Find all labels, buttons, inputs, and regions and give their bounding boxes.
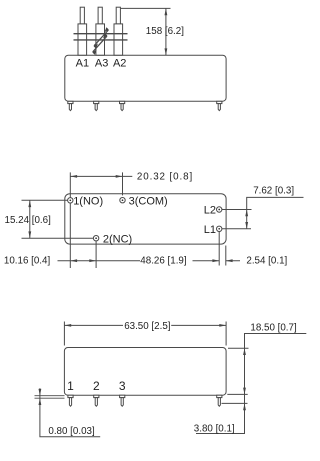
break mark diagonal bbox=[93, 30, 109, 52]
svg-text:20.32 [0.8]: 20.32 [0.8] bbox=[137, 172, 193, 183]
svg-text:L1: L1 bbox=[204, 224, 216, 236]
pin 1 view3 bbox=[68, 395, 73, 406]
body top reference line right bbox=[228, 347, 249, 349]
pin 1(NO) circle bbox=[68, 198, 73, 203]
dim 63.50 arrowheads bbox=[64, 324, 226, 327]
pin 2 view3 bbox=[94, 395, 99, 406]
svg-text:1(NO): 1(NO) bbox=[73, 196, 103, 208]
dim 18.50 shelf and leader bbox=[196, 334, 306, 434]
dim 20.32 dimension line bbox=[70, 175, 132, 177]
coil pin A1 blade bbox=[78, 7, 87, 55]
svg-text:2.54 [0.1]: 2.54 [0.1] bbox=[246, 255, 287, 266]
dim 20.32 extension line pin3 column bbox=[122, 172, 124, 195]
dim 10.16 / 48.26 / 2.54 arrowheads bbox=[70, 259, 232, 262]
bottom pin under view1 right bbox=[217, 101, 222, 110]
pin tip reference line right bbox=[222, 402, 248, 404]
dim 7.62 arrowheads bbox=[245, 210, 248, 229]
extension line pin2 column bottom bbox=[95, 241, 97, 268]
dim 15.24 extension lines bbox=[22, 200, 94, 238]
svg-text:A1: A1 bbox=[76, 58, 89, 70]
svg-text:1: 1 bbox=[67, 379, 74, 393]
svg-text:3(COM): 3(COM) bbox=[129, 196, 168, 208]
pin 3 view3 bbox=[120, 395, 125, 406]
dim 0.80 leader bbox=[40, 388, 100, 437]
pin L2 circle bbox=[217, 207, 222, 212]
svg-text:0.80 [0.03]: 0.80 [0.03] bbox=[48, 426, 95, 437]
dim 7.62 dimension line with shelf bbox=[247, 197, 304, 228]
dim 63.50 dimension line bbox=[64, 324, 226, 326]
coil pin A3 blade bbox=[96, 7, 105, 55]
svg-text:48.26 [1.9]: 48.26 [1.9] bbox=[140, 255, 187, 266]
pin cross bar lines bbox=[74, 34, 128, 40]
extension line body right edge bottom bbox=[225, 246, 227, 266]
dim 15.24 dimension line bbox=[29, 200, 31, 238]
dim 0.80 reference lines bbox=[35, 396, 65, 399]
svg-text:18.50 [0.7]: 18.50 [0.7] bbox=[250, 323, 297, 334]
dim 0.80 arrowheads bbox=[39, 389, 42, 405]
body outline view3 bbox=[64, 348, 226, 396]
dim 18.50 arrowheads bbox=[243, 348, 246, 394]
bottom dim line segments view2 bbox=[58, 260, 241, 262]
dim 63.50 extension lines bbox=[64, 322, 226, 346]
dim 158: top extension line bbox=[121, 7, 171, 9]
dim 20.32 extension line pin1 column bbox=[69, 172, 71, 268]
dim 158: arrowheads bbox=[165, 8, 168, 55]
bottom pin under view1 col2 bbox=[94, 101, 99, 110]
dim 3.80 arrowhead bbox=[243, 403, 246, 410]
bottom pin under view1 col3 bbox=[120, 101, 125, 110]
pin 3(COM) circle bbox=[120, 198, 125, 203]
body outline view1 bbox=[65, 55, 226, 101]
svg-text:15.24 [0.6]: 15.24 [0.6] bbox=[5, 215, 52, 226]
svg-text:3.80 [0.1]: 3.80 [0.1] bbox=[194, 423, 235, 434]
pin 2(NC) circle bbox=[93, 236, 98, 241]
extension line L column bottom bbox=[218, 232, 220, 266]
dim 7.62 extension lines from L2 L1 bbox=[222, 210, 252, 229]
dim 20.32 arrowheads bbox=[70, 175, 122, 178]
coil pin A2 blade bbox=[114, 7, 123, 55]
dim 158: vertical dimension line bbox=[165, 8, 167, 55]
pin right view3 bbox=[217, 395, 222, 406]
bottom pin under view1 col1 bbox=[68, 101, 73, 110]
svg-text:A2: A2 bbox=[113, 58, 126, 70]
svg-text:7.62 [0.3]: 7.62 [0.3] bbox=[253, 185, 294, 196]
svg-text:3: 3 bbox=[119, 379, 126, 393]
body bottom reference line right bbox=[227, 393, 247, 395]
break mark end flares bbox=[92, 27, 109, 55]
svg-text:2(NC): 2(NC) bbox=[103, 234, 132, 246]
body outline view2 bbox=[65, 194, 226, 244]
svg-text:158 [6.2]: 158 [6.2] bbox=[146, 26, 184, 37]
svg-text:L2: L2 bbox=[204, 205, 216, 217]
svg-text:2: 2 bbox=[93, 379, 100, 393]
pin L1 circle bbox=[217, 226, 222, 231]
svg-text:10.16 [0.4]: 10.16 [0.4] bbox=[4, 255, 51, 266]
dim 15.24 arrowheads bbox=[28, 200, 31, 238]
svg-text:63.50 [2.5]: 63.50 [2.5] bbox=[124, 321, 171, 332]
svg-text:A3: A3 bbox=[95, 58, 108, 70]
